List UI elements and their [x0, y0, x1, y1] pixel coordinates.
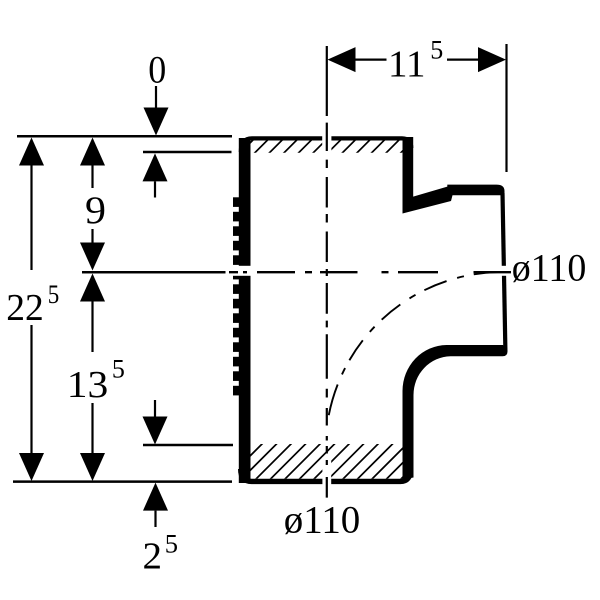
hatching bottom (section cut) — [225, 443, 437, 481]
extension line: 2.5-level y=445 — [143, 444, 233, 447]
lower right wall: socket bottom wall, curve, pipe wall — [403, 345, 508, 480]
upper right wall: pipe wall, slant and branch socket top wall — [403, 137, 505, 214]
svg-text:22: 22 — [6, 287, 44, 329]
flow centerline arc (dash-dot) — [326, 272, 503, 449]
svg-text:13: 13 — [67, 364, 109, 406]
extension line: 0-level y=152 — [143, 151, 232, 154]
dimension 9 arrows — [80, 138, 105, 166]
extension line: mid y line left part — [82, 271, 226, 273]
dimension 0 (top small) — [155, 86, 157, 108]
svg-text:11: 11 — [388, 44, 426, 86]
extension line: top surface y=136 — [17, 135, 232, 138]
svg-text:5: 5 — [48, 280, 60, 309]
svg-text:ø110: ø110 — [512, 246, 587, 289]
branch socket right end edge — [500, 193, 507, 351]
horizontal centerline (dash-dot) y=272.2 — [82, 271, 511, 273]
svg-text:0: 0 — [148, 49, 166, 92]
pipe top edge — [241, 138, 411, 152]
dimension 13.5 arrows — [80, 274, 105, 302]
svg-text:5: 5 — [430, 35, 443, 64]
pipe bottom edge — [241, 469, 411, 481]
svg-text:5: 5 — [165, 529, 178, 558]
pipe body: left wall bar — [239, 138, 251, 483]
extension line: bottom surface y=481.6 — [13, 480, 232, 483]
hatching top (section cut) — [238, 137, 417, 155]
dimension 2.5 (bottom small) — [154, 400, 156, 418]
dimension 11.5 (top horizontal) — [505, 44, 507, 172]
left wall serration teeth — [233, 197, 239, 395]
dimension 22.5 arrows — [19, 138, 44, 166]
dimension 22.5 line x=31.5 — [30, 160, 32, 458]
dimension 13.5 line x=92.5 — [91, 300, 93, 455]
svg-text:5: 5 — [112, 355, 125, 384]
svg-text:2: 2 — [143, 536, 163, 578]
svg-text:ø110: ø110 — [284, 498, 361, 541]
svg-text:9: 9 — [85, 189, 106, 232]
white gaps where centerlines cross walls — [322, 133, 331, 156]
dimension 9 line x=92.5 — [91, 160, 93, 245]
vertical centerline (dash-dot) x=326.8 — [326, 46, 328, 498]
